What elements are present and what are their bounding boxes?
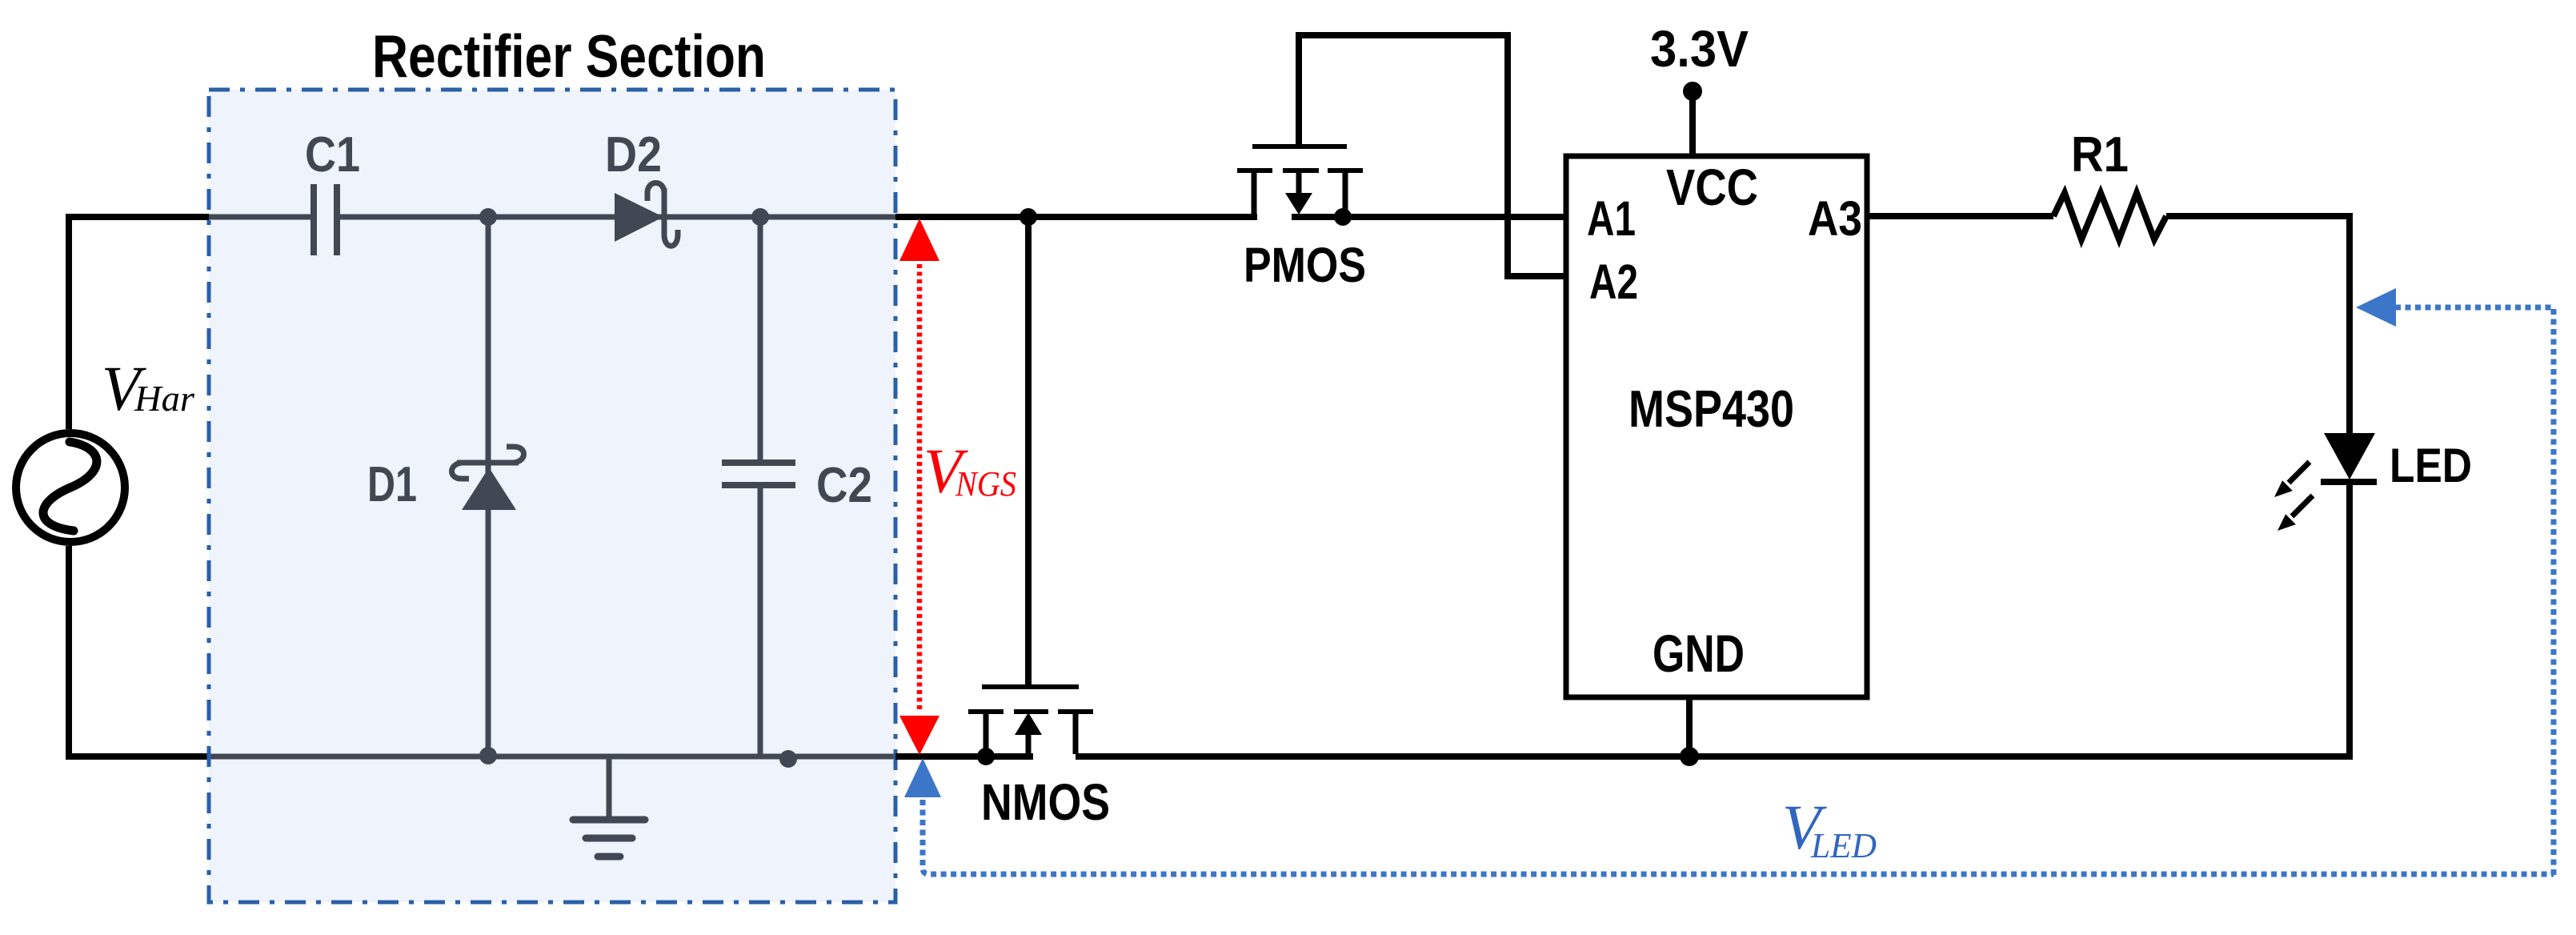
transistor PMOS gate bar <box>1252 144 1347 149</box>
wire top rail box to PMOS source <box>895 214 1257 220</box>
wire A3 to R1 <box>1867 213 2053 219</box>
diode D2 cathode bar <box>662 188 667 236</box>
svg-text:LED: LED <box>1810 826 1877 865</box>
svg-text:A3: A3 <box>1808 191 1862 246</box>
LED emission arrow 1 <box>2289 462 2310 483</box>
svg-text:NMOS: NMOS <box>981 773 1110 831</box>
V_LED measurement arrow left at LED <box>2356 288 2396 327</box>
junction node C1-D1 <box>479 208 497 226</box>
wire NMOS gate vertical <box>1025 217 1032 684</box>
diode D1 cathode left hook <box>452 463 470 479</box>
diode D2 cathode bottom hook <box>664 230 678 246</box>
junction dot NMOS source <box>977 748 995 765</box>
power terminal dot 3.3V <box>1683 82 1702 101</box>
svg-text:D2: D2 <box>605 127 662 183</box>
wire D1 branch vertical <box>486 217 491 756</box>
V_NGS measurement arrow up <box>899 219 939 261</box>
V_NGS dotted line <box>917 264 923 712</box>
svg-text:LED: LED <box>2390 439 2472 492</box>
transistor NMOS drain terminal <box>1073 714 1079 754</box>
AC source V1 sine wave <box>43 442 97 531</box>
wire bottom rail left of NMOS <box>895 753 1033 760</box>
V_LED measurement arrow up at rail <box>904 758 941 797</box>
transistor NMOS source terminal <box>984 714 989 756</box>
rectifier section box fill <box>209 90 895 902</box>
transistor NMOS body arrow <box>1015 712 1042 735</box>
svg-text:R1: R1 <box>2071 127 2129 183</box>
wire R1 to LED anode <box>2166 216 2350 433</box>
svg-text:Har: Har <box>134 378 195 419</box>
svg-text:C1: C1 <box>305 127 360 183</box>
capacitor C2 plates <box>722 463 795 485</box>
transistor PMOS drain terminal <box>1343 173 1348 215</box>
transistor NMOS channel segments <box>968 709 1093 714</box>
transistor PMOS channel segments <box>1237 168 1363 173</box>
wire 3.3V supply pin <box>1689 91 1696 156</box>
wire top rail inside rectifier box <box>209 215 898 220</box>
wire GND pin <box>1686 697 1693 756</box>
wire bottom rail NMOS drain to LED <box>1076 753 2353 760</box>
ground stem <box>607 756 612 820</box>
ground bars <box>573 820 645 857</box>
V_LED dotted feedback path <box>923 307 2554 875</box>
diode D2 cathode top hook <box>647 183 664 202</box>
capacitor C1 plates <box>314 184 337 255</box>
svg-text:GND: GND <box>1653 624 1745 683</box>
junction dot C2-rail <box>779 750 797 768</box>
diode D1 schottky triangle <box>462 467 516 510</box>
wire LED cathode to bottom rail <box>2346 482 2353 756</box>
svg-text:3.3V: 3.3V <box>1650 20 1749 78</box>
svg-text:PMOS: PMOS <box>1244 238 1366 292</box>
wire C2 branch vertical <box>758 217 763 756</box>
junction node D2-C2 <box>751 208 769 226</box>
svg-text:Rectifier Section: Rectifier Section <box>372 22 766 90</box>
wire PMOS gate loop to A2 <box>1299 35 1566 276</box>
junction node NMOS gate tap <box>1020 208 1037 226</box>
LED triangle <box>2324 433 2375 480</box>
LED cathode bar <box>2321 479 2377 485</box>
MCU U1 MSP430 box <box>1566 156 1867 697</box>
transistor PMOS source terminal <box>1252 173 1257 215</box>
junction dot PMOS drain <box>1334 208 1352 226</box>
wire bottom-left from source to box <box>69 546 209 756</box>
wire PMOS drain to MSP430 A1 <box>1292 214 1566 220</box>
svg-text:VCC: VCC <box>1666 159 1758 216</box>
svg-text:NGS: NGS <box>955 464 1016 504</box>
LED emission arrow 2 <box>2292 496 2313 516</box>
svg-text:MSP430: MSP430 <box>1629 379 1794 438</box>
svg-text:D1: D1 <box>367 457 417 512</box>
diode D1 cathode right hook <box>507 447 524 463</box>
transistor PMOS body arrow <box>1296 173 1302 194</box>
V_NGS measurement arrow down <box>899 716 939 755</box>
wire top-left from source to box <box>69 217 209 429</box>
diode D2 schottky triangle <box>615 193 663 242</box>
wire bottom rail inside rectifier box <box>209 754 898 760</box>
diode D1 cathode bar <box>457 460 519 466</box>
junction dot D1-rail <box>479 747 497 764</box>
svg-text:A2: A2 <box>1589 255 1638 309</box>
rectifier box dash-dot border <box>209 90 895 902</box>
svg-text:C2: C2 <box>816 458 872 513</box>
resistor R1 <box>2053 193 2166 239</box>
svg-text:A1: A1 <box>1587 191 1636 246</box>
junction dot GND-rail <box>1680 747 1699 766</box>
transistor NMOS gate bar <box>982 684 1079 689</box>
AC source V1 circle <box>16 433 125 542</box>
